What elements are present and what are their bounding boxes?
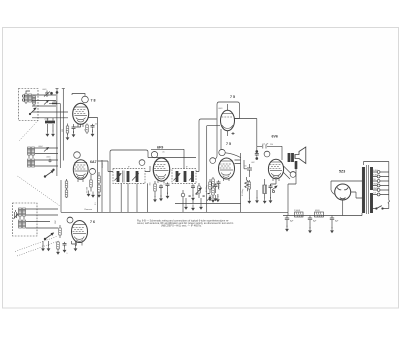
- IF T2 dashed box: [172, 169, 196, 184]
- wire: [72, 241, 76, 246]
- svg-text:0.1: 0.1: [164, 184, 167, 186]
- wire bus: [88, 118, 98, 213]
- value labels scatter: [38, 89, 273, 255]
- diode load resistors: [211, 177, 215, 203]
- wire: [60, 180, 62, 212]
- electrolytic C13: [330, 216, 339, 234]
- wire to speaker: [283, 166, 291, 179]
- svg-text:50M: 50M: [55, 220, 57, 224]
- cluster marks: [189, 193, 210, 197]
- svg-text:.002: .002: [251, 162, 255, 164]
- grid resistor R7: [59, 225, 62, 238]
- grid cap C: [72, 94, 88, 103]
- small cap C4: [49, 159, 52, 163]
- svg-text:2,500Ω: 2,500Ω: [294, 210, 301, 212]
- trimmer arrow: [44, 148, 49, 152]
- signal wire: [235, 119, 257, 147]
- svg-text:7 8: 7 8: [91, 99, 96, 103]
- zigzag resistor R11: [245, 177, 249, 191]
- svg-text:.1: .1: [66, 253, 68, 255]
- tap wires: [373, 172, 377, 195]
- ground: [191, 195, 195, 201]
- svg-text:350V: 350V: [373, 184, 378, 186]
- bypass capacitor C2: [72, 124, 76, 133]
- filter choke CH2: [315, 212, 324, 217]
- audio bus wire: [175, 203, 241, 205]
- svg-text:6F9: 6F9: [157, 146, 163, 150]
- svg-text:7 5: 7 5: [226, 142, 231, 146]
- svg-text:.0001: .0001: [218, 108, 223, 110]
- IF T1 coil2: [136, 171, 138, 182]
- B+ rail: [283, 212, 362, 215]
- gang dashed line: [18, 176, 61, 206]
- caption text: [137, 219, 234, 227]
- wire: [74, 124, 81, 127]
- coupling cap C9: [247, 164, 252, 174]
- screen resistor R6: [98, 172, 101, 193]
- audio caps stack: [255, 146, 259, 159]
- wire top: [257, 146, 282, 160]
- tube V3 internals: [73, 225, 87, 246]
- speaker field coil: [295, 161, 297, 169]
- small parts: [209, 179, 212, 193]
- diode wire box: [217, 102, 240, 120]
- coil L6: [19, 220, 26, 228]
- wires T1: [98, 161, 150, 172]
- IF T2 third coil: [191, 171, 193, 182]
- grounds: [255, 190, 259, 203]
- ground: [153, 196, 157, 202]
- tube V2 internals: [74, 163, 87, 183]
- svg-text:6A7: 6A7: [90, 160, 97, 164]
- osc coil shield dashed box: [13, 203, 38, 236]
- bypass cap C7: [159, 184, 163, 197]
- cathode resistor R2: [66, 124, 69, 136]
- IF T1 dashed box: [113, 169, 145, 184]
- speaker cone: [295, 147, 306, 164]
- wire bus: [101, 160, 103, 212]
- ground: [87, 191, 91, 197]
- wire drops to bus: [98, 183, 148, 215]
- tube V6 internals: [270, 162, 283, 181]
- osc grid resistor R5: [90, 174, 93, 191]
- cluster caps: [191, 184, 195, 196]
- svg-text:0.1: 0.1: [84, 130, 87, 132]
- tube V5 75: [219, 158, 235, 179]
- tube V5a 75 (top): [221, 110, 235, 130]
- wire: [271, 179, 277, 184]
- IF T2 secondary: [184, 171, 186, 182]
- svg-text:450Ω: 450Ω: [315, 210, 320, 212]
- svg-text:7 6: 7 6: [90, 220, 95, 224]
- svg-text:300: 300: [62, 129, 64, 132]
- svg-text:.01: .01: [244, 166, 247, 168]
- coil taps wires: [32, 95, 68, 118]
- shield wire: [148, 157, 196, 159]
- grounds mid: [184, 198, 195, 211]
- wire: [120, 183, 122, 212]
- aux circle: [139, 160, 145, 166]
- svg-text:.05: .05: [95, 124, 98, 126]
- tube V6 6V6: [268, 159, 283, 179]
- cap C6: [63, 242, 67, 253]
- fuse F1: [388, 200, 389, 203]
- V7 internals: [337, 188, 348, 199]
- detector wire box: [196, 119, 217, 172]
- electrolytic C11: [285, 216, 294, 232]
- svg-text:0.5 Meg.: 0.5 Meg.: [242, 188, 244, 196]
- ground arrowheads: [199, 198, 203, 210]
- svg-text:.0004: .0004: [44, 119, 49, 121]
- ground: [208, 195, 212, 201]
- B minus bus: [61, 211, 288, 213]
- cathode wire: [342, 200, 344, 216]
- small cap: [217, 180, 221, 189]
- grid cap circle: [74, 152, 81, 159]
- svg-text:0.1: 0.1: [95, 203, 97, 206]
- padder coil L2: [45, 121, 55, 123]
- filter choke CH1: [295, 212, 304, 217]
- cathode resistor R4: [65, 179, 68, 198]
- plate capacitor C3: [91, 124, 95, 132]
- screen cap C8: [166, 182, 170, 194]
- trimmer capacitor C1: [44, 91, 50, 98]
- ground: [46, 131, 50, 137]
- antenna coil shield dashed box: [19, 89, 39, 121]
- tap return wires: [380, 172, 389, 195]
- ground: [66, 134, 70, 140]
- antenna terminal B: [56, 91, 58, 93]
- resistor R8: [56, 241, 60, 255]
- svg-text:6.3V: 6.3V: [373, 170, 378, 172]
- plus mark: [232, 132, 235, 135]
- coil wires: [35, 148, 58, 166]
- wire: [235, 153, 248, 212]
- coil wires: [26, 209, 58, 228]
- oscillator coil L4: [28, 159, 35, 167]
- wire right: [351, 192, 362, 198]
- screen resistor R3: [86, 124, 89, 135]
- top cap C10: [263, 145, 266, 149]
- IF T1 primary: [117, 171, 119, 182]
- IF T1 secondary: [127, 171, 129, 182]
- IF T1 core: [123, 171, 125, 183]
- svg-text:6.3V: 6.3V: [373, 175, 378, 177]
- svg-text:250: 250: [270, 144, 273, 146]
- svg-text:(ABCDEFG—HIJ) sect. — IF 4: (ABCDEFG—HIJ) sect. — IF 465 kc.: [161, 225, 202, 228]
- AC ladder wire: [388, 162, 390, 201]
- tube V4 6F9: [153, 158, 169, 181]
- cathode resistor R9: [154, 181, 157, 197]
- variable arrow: [44, 101, 49, 105]
- ground: [72, 131, 76, 137]
- svg-text:0.5 Meg.: 0.5 Meg.: [206, 184, 208, 192]
- svg-text:25,000: 25,000: [102, 163, 104, 169]
- svg-text:5Z3: 5Z3: [339, 170, 345, 174]
- power transformer T4: [362, 165, 373, 214]
- tap terminals: [377, 171, 380, 196]
- resistors small: [247, 180, 251, 204]
- grid circle: [264, 151, 270, 157]
- svg-text:350: 350: [150, 183, 152, 186]
- osc anode circle: [90, 168, 96, 174]
- anode wire loop: [331, 181, 362, 195]
- tone pot: [272, 186, 277, 193]
- ground: [159, 195, 163, 201]
- IF T2 arrows: [174, 174, 194, 181]
- cathode resistor dark: [263, 179, 267, 204]
- gang dashed line: [19, 121, 38, 142]
- ground: [91, 192, 95, 198]
- tube V4 internals: [154, 162, 169, 184]
- svg-text:350V: 350V: [373, 188, 378, 190]
- ground: [91, 131, 95, 137]
- wire vertical: [248, 174, 250, 177]
- svg-text:.0001: .0001: [46, 157, 51, 159]
- wire: [207, 126, 220, 213]
- svg-text:2Meg: 2Meg: [53, 101, 58, 103]
- ground: [74, 245, 78, 251]
- switch S3: [44, 233, 53, 240]
- svg-text:Remove: Remove: [85, 209, 93, 211]
- tube V5 internals: [220, 161, 234, 181]
- band switch S1: [29, 108, 36, 115]
- ground: [51, 131, 55, 137]
- tube V1 78: [73, 103, 89, 124]
- tube V5a internals: [222, 114, 234, 129]
- electrolytic C12: [308, 216, 317, 234]
- svg-text:.0001: .0001: [42, 89, 47, 91]
- plate top wire: [151, 149, 184, 168]
- grid cap circle: [219, 149, 241, 157]
- svg-text:.0004: .0004: [38, 146, 43, 148]
- power switch S4: [371, 204, 389, 214]
- svg-text:50,000: 50,000: [87, 186, 89, 193]
- antenna lead-in: [56, 89, 65, 97]
- grid cap circle: [151, 151, 157, 157]
- wire from speaker field: [288, 169, 296, 212]
- rectifier V7 5Z3: [335, 184, 351, 200]
- wire: [47, 118, 53, 132]
- svg-text:7 5: 7 5: [230, 95, 235, 99]
- volume pot R10: [196, 183, 202, 198]
- ground: [166, 193, 170, 199]
- gang dashed line: [15, 237, 57, 252]
- resistor R1: [49, 102, 60, 104]
- tube V2 6A7: [73, 160, 88, 180]
- aux circle: [210, 158, 216, 164]
- IF T1 trimmer arrows: [115, 174, 139, 181]
- cluster arrow: [207, 194, 220, 202]
- ground: [214, 195, 218, 201]
- antenna terminal A: [51, 92, 53, 94]
- grid circle: [67, 217, 73, 223]
- wire shield box: [110, 150, 148, 212]
- wire vertical bus: [57, 92, 63, 176]
- antenna coil L1: [22, 91, 35, 106]
- IF T2 primary: [176, 171, 178, 182]
- wire down: [215, 120, 228, 159]
- transformer top wire: [364, 162, 389, 166]
- svg-text:.05: .05: [162, 152, 165, 154]
- cathode parts: [269, 184, 273, 203]
- aux circle: [290, 172, 296, 178]
- tuning switch S2: [44, 169, 54, 178]
- tap labels: [373, 170, 378, 195]
- cathode components: [41, 241, 50, 251]
- oscillator coil L3: [28, 147, 35, 158]
- ground: [97, 192, 101, 198]
- gang dashed line: [17, 241, 59, 256]
- AVC pot circle: [181, 190, 185, 212]
- tube V3 76: [72, 221, 88, 243]
- padder capacitor C5: [14, 210, 19, 219]
- output transformer T3: [288, 153, 294, 162]
- small parts2: [214, 183, 218, 193]
- coil L5: [19, 208, 26, 219]
- svg-text:6V6: 6V6: [272, 134, 278, 138]
- tube V1 internals: [74, 107, 87, 127]
